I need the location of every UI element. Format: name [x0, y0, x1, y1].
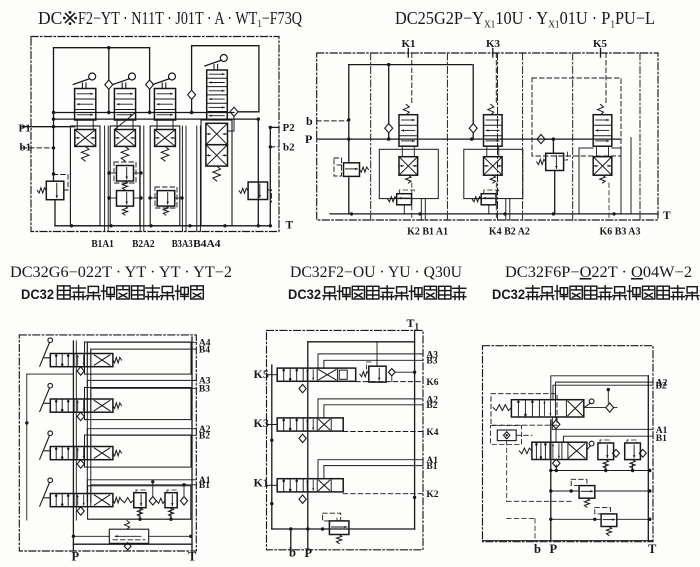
overload valve A1 side [122, 490, 147, 517]
hand valve 3 [40, 431, 122, 460]
wire pilot bus [52, 111, 234, 114]
wire top bus [349, 63, 472, 66]
port P d4 [305, 546, 313, 560]
port T [663, 210, 671, 222]
wire B row K1 [324, 462, 438, 479]
overload valve v2a [107, 162, 142, 190]
wire bottom bus d3 [73, 543, 192, 545]
check valve v4 pilot [188, 90, 196, 99]
work port lines K1 [412, 183, 426, 220]
svg-text:b: b [289, 546, 296, 560]
overload valve r2b [625, 440, 647, 469]
wire K pilot K2 [343, 490, 439, 500]
section divider line [572, 53, 574, 220]
svg-text:DC32F6P−O22T · O04W−2: DC32F6P−O22T · O04W−2 [505, 264, 692, 281]
subtitle DC32 load-feedback type (CJK) [492, 286, 699, 302]
svg-text:K3: K3 [254, 416, 269, 430]
svg-text:K4 B2 A2: K4 B2 A2 [489, 226, 530, 238]
svg-text:K1: K1 [254, 475, 269, 489]
pilot operated valve K3 [277, 418, 343, 431]
check valve right [228, 107, 239, 131]
pilot relief K5 [537, 139, 568, 214]
wire left feed rail [347, 65, 350, 163]
wire A4 [87, 339, 210, 354]
section frame row 1 [85, 342, 192, 374]
wire A1 [87, 476, 210, 494]
svg-text:P: P [305, 132, 312, 146]
wire P bus [52, 117, 260, 120]
svg-text:DC: DC [38, 8, 62, 28]
label K2 B1 A1 [407, 226, 448, 238]
section divider line [370, 53, 372, 220]
title DC32F6P-O22T O04W-2 [505, 264, 692, 281]
check diamond A1 [149, 480, 156, 505]
wire A row K5 [318, 350, 438, 368]
pilot operated valve K5 [277, 368, 356, 381]
check valve below 4 [77, 507, 84, 516]
svg-text:P2: P2 [283, 122, 296, 134]
svg-text:K4: K4 [426, 428, 438, 438]
directional valve unit 4 [201, 55, 232, 226]
section divider line [639, 53, 641, 220]
pressure valve fb1 [551, 479, 652, 507]
dashed pilot frame K5 [532, 78, 621, 156]
port T d5 [648, 542, 657, 556]
wire work ports 1 [105, 126, 109, 232]
directional valve unit 2 [110, 73, 140, 226]
relief valve right [239, 182, 271, 202]
svg-text:DC32F2−OU · YU · Q30U: DC32F2−OU · YU · Q30U [290, 264, 462, 281]
wire B2 [553, 382, 667, 400]
label K1 [254, 475, 278, 489]
check diamond B1 [180, 483, 187, 505]
port P1 [19, 122, 75, 134]
wire B row K5 [324, 357, 438, 368]
svg-text:b: b [534, 542, 541, 556]
port b1 [20, 142, 54, 154]
svg-text:B4A4: B4A4 [193, 238, 221, 250]
wire top bus left [54, 46, 150, 49]
svg-text:F2−YT · N11T · J01T · A · WT1−: F2−YT · N11T · J01T · A · WT1−F73Q [78, 8, 302, 30]
svg-text:DC25G2P−YX110U · YX101U · P1PU: DC25G2P−YX110U · YX101U · P1PU−L [395, 8, 655, 31]
svg-text:B4: B4 [199, 345, 210, 355]
wire B2 [91, 432, 210, 447]
svg-text:B2: B2 [656, 382, 667, 392]
wire A2 [87, 425, 210, 447]
wire b rail d4 [289, 527, 292, 550]
wire A1 [552, 417, 667, 436]
hand valve 4 [40, 478, 122, 507]
pilot relief d4 top [360, 342, 417, 382]
wire P rail d4 [306, 342, 309, 550]
wire b dashed d5 [507, 519, 535, 542]
svg-text:P: P [550, 542, 558, 556]
check valve K1 [385, 65, 393, 140]
wire T rail [257, 119, 259, 226]
port T [286, 220, 294, 232]
wire P2 rail [269, 127, 272, 227]
svg-text:K2 B1 A1: K2 B1 A1 [407, 226, 448, 238]
label K6 B3 A3 [600, 226, 641, 238]
svg-text:DC32: DC32 [492, 286, 525, 302]
svg-text:P: P [305, 546, 313, 560]
wire top loop d4 [308, 341, 415, 343]
diagram2 outer border [317, 53, 658, 220]
pilot valve unit K3 [464, 53, 523, 199]
wire B4 [91, 345, 210, 355]
title DC25G2P-Yx110U Yx101U P1PU-L [395, 8, 655, 31]
hand valve 1 [40, 338, 122, 367]
svg-text:K2: K2 [426, 490, 438, 500]
section frame row 3 [85, 435, 192, 467]
svg-text:T: T [648, 542, 657, 556]
svg-text:T: T [286, 220, 294, 232]
wire bottom bus d5 [483, 540, 654, 542]
wire top loop d5 [551, 376, 649, 400]
wire bottom bus d4 [272, 527, 415, 530]
svg-text:B3: B3 [426, 357, 437, 367]
svg-text:DC32: DC32 [21, 286, 54, 302]
main relief d4 [323, 513, 349, 543]
wire right rail d5 [647, 376, 649, 541]
check valve below 2 [77, 412, 84, 421]
work port lines K5 [579, 138, 631, 221]
label K3 [254, 416, 278, 430]
wire branch v3 [149, 48, 151, 113]
wire branch v2 [108, 48, 110, 113]
title DC32G6-022T YT YT YT-2 [10, 264, 232, 281]
wire K pilot K4 [343, 428, 439, 438]
check diamond row1 down [552, 417, 560, 442]
wire T bus [330, 212, 658, 215]
check valve below 1 [77, 367, 84, 376]
wire P rail [73, 341, 76, 551]
relief valve inlet [334, 158, 369, 214]
overload valve B1 side [157, 490, 178, 517]
port P d5 [550, 542, 558, 556]
svg-text:B1: B1 [656, 434, 667, 444]
label B1A1 [91, 238, 114, 250]
wire left rail [52, 48, 55, 176]
wire A2 [556, 378, 668, 399]
svg-text:P: P [72, 550, 80, 564]
svg-text:B3: B3 [199, 385, 210, 395]
wire A row K3 [318, 395, 438, 418]
check valve K5 inlet [537, 135, 553, 144]
wire right rail d4 [413, 330, 416, 529]
svg-text:K6 B3 A3: K6 B3 A3 [600, 226, 641, 238]
wire T rail [191, 337, 193, 551]
svg-text:B1: B1 [426, 462, 437, 472]
svg-text:T: T [188, 550, 197, 564]
port b2 [269, 142, 296, 154]
label B4A4 [193, 238, 221, 250]
main relief valve [72, 521, 193, 550]
wire left rail d4 [270, 365, 273, 529]
check valve row1 out [584, 388, 617, 412]
feedback valve row2 [519, 441, 594, 459]
wire B gallery [90, 349, 92, 502]
label K3 [486, 38, 501, 57]
svg-text:B1A1: B1A1 [91, 238, 114, 250]
section divider line [497, 53, 499, 220]
svg-text:P1: P1 [19, 122, 31, 134]
check valve v3 pilot [146, 80, 154, 89]
label K5 [593, 38, 608, 57]
port b [306, 114, 349, 128]
check valve below 3 [77, 460, 84, 469]
diagram1 outer border [31, 37, 279, 232]
wire A row K1 [318, 456, 438, 479]
port b d4 [289, 546, 296, 560]
directional valve unit 3 [150, 73, 180, 226]
section divider line [446, 53, 448, 220]
svg-text:B2: B2 [199, 432, 210, 442]
wire B1 [91, 481, 210, 494]
title DC32F2-OU YU Q30U [290, 264, 462, 281]
svg-text:K6: K6 [426, 378, 438, 388]
overload valve v3a [148, 187, 183, 215]
subtitle DC32 manual type (CJK) [21, 285, 203, 302]
wire K pilot K6 [356, 378, 439, 388]
work port lines K3 [496, 183, 510, 220]
wire right drop [238, 46, 259, 112]
overload valve v2b [107, 191, 142, 216]
wire overload drains [88, 508, 191, 521]
label K1 [402, 38, 416, 57]
svg-text:K5: K5 [254, 367, 269, 381]
check valve v2 pilot [105, 80, 113, 89]
diagram4 outer border [267, 330, 424, 549]
shuttle valve [491, 426, 572, 502]
wire B row K3 [324, 401, 438, 418]
check diamond K1 [299, 495, 306, 503]
subtitle DC32 pilot type (CJK) [288, 286, 466, 302]
directional valve unit 1 [70, 73, 100, 226]
svg-text:DC32: DC32 [288, 286, 321, 302]
check valve K3 [469, 65, 477, 140]
label K5 [254, 367, 278, 381]
title DC*F2-YT N11T J01T A WT1-F73Q [38, 8, 302, 30]
port P2 [269, 122, 296, 134]
svg-text:b: b [306, 114, 313, 128]
label B3A3 [172, 238, 193, 250]
feedback valve row1 [491, 394, 594, 426]
wire A gallery [86, 342, 88, 502]
label K4 B2 A2 [489, 226, 530, 238]
port P d3 [72, 550, 80, 564]
svg-text:b2: b2 [283, 142, 295, 154]
wire left rail [25, 374, 73, 520]
relief valve left [37, 174, 68, 226]
svg-text:B3A3: B3A3 [172, 238, 193, 250]
section divider line [522, 53, 524, 220]
wire P rail d5 [549, 420, 552, 541]
check diamond K3 [299, 434, 306, 442]
svg-text:B2A2: B2A2 [132, 238, 155, 250]
port T1 [407, 316, 420, 332]
pilot operated valve K1 [277, 479, 343, 492]
svg-text:T: T [663, 210, 671, 222]
wire B3 [91, 385, 210, 400]
port b d5 [534, 542, 541, 556]
section frame row 4 [88, 486, 191, 519]
wire top bus right [192, 45, 259, 47]
load relief K3 [472, 190, 499, 214]
pressure valve fb2 [551, 508, 652, 536]
svg-text:DC32G6−022T · YT · YT · YT−2: DC32G6−022T · YT · YT · YT−2 [10, 264, 232, 281]
load relief K1 [388, 190, 415, 214]
port P [305, 132, 621, 146]
svg-text:B1: B1 [199, 481, 210, 491]
wire work ports 3 [182, 126, 186, 232]
wire A3 [87, 377, 210, 399]
port T d3 [188, 550, 197, 564]
section frame row 2 [85, 388, 192, 420]
svg-text:B2: B2 [426, 401, 437, 411]
wire bottom bus [55, 224, 270, 227]
hand valve 2 [40, 383, 122, 412]
diagram5 outer border [483, 346, 654, 542]
overload valve r2a [598, 440, 620, 469]
pilot valve unit K1 [379, 53, 438, 199]
wire B1 [563, 434, 667, 444]
pilot valve unit K5 [593, 53, 612, 183]
label B2A2 [132, 238, 155, 250]
wire work ports 4 [197, 126, 201, 232]
wire work ports 2 [140, 126, 144, 232]
wire row2 drain [551, 459, 652, 472]
wire branch v4 [191, 46, 193, 113]
check diamond K5 [299, 384, 306, 392]
diagram3 outer border [19, 335, 196, 551]
